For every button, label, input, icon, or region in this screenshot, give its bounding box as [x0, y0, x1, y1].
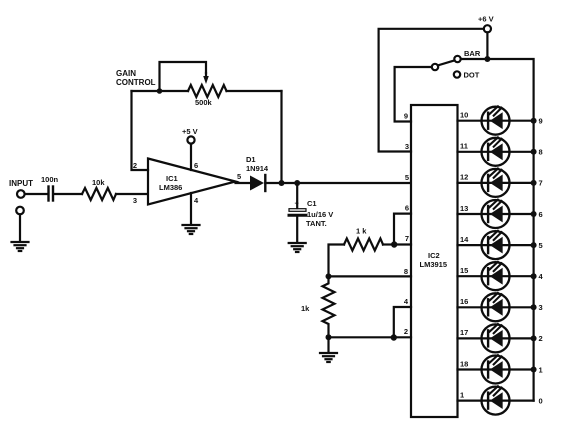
- wiper arrow: [203, 76, 209, 84]
- IC2 LM3915: [411, 105, 458, 417]
- svg-text:LM3915: LM3915: [420, 260, 448, 269]
- wire pin 6 to pin 7: [394, 214, 411, 245]
- svg-text:+6 V: +6 V: [478, 15, 494, 24]
- node +6V junction: [484, 56, 490, 62]
- svg-text:IC1: IC1: [166, 174, 178, 183]
- GAIN CONTROL label: [116, 69, 156, 87]
- node rail row 2: [531, 335, 537, 341]
- wire 1k left to pin8 node: [329, 245, 345, 277]
- svg-text:9: 9: [404, 112, 408, 121]
- svg-text:12: 12: [460, 173, 468, 182]
- svg-text:LM386: LM386: [159, 183, 182, 192]
- node pin7 junction: [391, 241, 397, 247]
- svg-text:7: 7: [405, 234, 409, 243]
- wire LED to rail: [509, 213, 533, 215]
- wire pin 18 to LED: [458, 368, 482, 370]
- svg-text:3: 3: [405, 142, 409, 151]
- wire pin 16 to LED: [458, 306, 482, 308]
- node rail row 4: [531, 273, 537, 279]
- svg-text:4: 4: [404, 297, 409, 306]
- wire node to LED rail top: [487, 59, 533, 401]
- svg-text:2: 2: [539, 334, 543, 343]
- svg-text:2: 2: [404, 327, 408, 336]
- svg-text:C1: C1: [307, 199, 317, 208]
- op-amp IC1 LM386: [133, 159, 241, 206]
- svg-text:1: 1: [460, 390, 464, 399]
- wire input to 100n: [25, 193, 47, 195]
- svg-text:6: 6: [539, 210, 543, 219]
- wire LED to rail: [509, 400, 533, 402]
- wire pin 12 to LED: [458, 182, 482, 184]
- wire LED to rail: [509, 337, 533, 339]
- wire LED to rail: [509, 120, 533, 122]
- svg-text:INPUT: INPUT: [9, 179, 33, 188]
- node C1 junction: [294, 180, 300, 186]
- svg-text:10: 10: [460, 111, 468, 120]
- wire pin 7: [394, 243, 411, 245]
- wire pin5 to diode: [236, 182, 251, 184]
- wire LED to rail: [509, 275, 533, 277]
- svg-text:10k: 10k: [92, 178, 105, 187]
- svg-text:9: 9: [539, 117, 543, 126]
- svg-text:8: 8: [539, 148, 543, 157]
- capacitor C1 1u/16V TANT: [289, 183, 333, 242]
- wire feedback top left segment: [132, 90, 189, 92]
- LED D6: [482, 200, 510, 228]
- wire pin 15 to LED: [458, 275, 482, 277]
- capacitor 100n: [41, 175, 59, 201]
- svg-text:5: 5: [405, 173, 409, 182]
- svg-text:14: 14: [460, 235, 469, 244]
- node rail row 8: [531, 149, 537, 155]
- wire BAR to +6V node: [461, 58, 488, 60]
- svg-text:1u/16 V: 1u/16 V: [307, 210, 333, 219]
- svg-text:6: 6: [405, 204, 409, 213]
- node rail row 5: [531, 242, 537, 248]
- switch blade: [438, 60, 455, 65]
- wire pin 9: [395, 67, 432, 122]
- resistor 10k: [82, 178, 116, 200]
- svg-text:1k: 1k: [301, 304, 310, 313]
- wire pin 17 to LED: [458, 337, 482, 339]
- svg-text:16: 16: [460, 297, 468, 306]
- wire pin2 feedback (left vertical): [132, 91, 149, 170]
- node rail row 1: [531, 367, 537, 373]
- switch DOT contact: [454, 71, 460, 77]
- svg-text:GAIN: GAIN: [116, 69, 136, 78]
- LED D8: [482, 137, 510, 165]
- potentiometer 500k: [188, 85, 227, 107]
- svg-text:DOT: DOT: [464, 71, 480, 80]
- svg-text:CONTROL: CONTROL: [116, 78, 156, 87]
- svg-text:500k: 500k: [195, 98, 213, 107]
- input jack INPUT: [9, 179, 33, 214]
- node rail row 6: [531, 211, 537, 217]
- svg-text:D1: D1: [246, 155, 256, 164]
- resistor 1k (vertical): [301, 276, 335, 337]
- svg-text:+5 V: +5 V: [182, 127, 198, 136]
- wire lower jack to ground: [19, 214, 21, 241]
- wire LED to rail: [509, 182, 533, 184]
- diode D1 1N914: [246, 155, 269, 191]
- svg-text:BAR: BAR: [464, 49, 481, 58]
- wire pin 14 to LED: [458, 244, 482, 246]
- wire pin4 to ground: [190, 193, 192, 224]
- wire pot to right vertical: [227, 90, 282, 92]
- switch S1 pole: [432, 64, 438, 70]
- svg-text:8: 8: [404, 267, 408, 276]
- LED D5: [482, 231, 510, 259]
- wire 10k to pin3: [116, 193, 148, 195]
- wire +6V to pin3 rail: [379, 29, 484, 152]
- LED D3: [482, 293, 510, 321]
- wire bottom to pin 2: [329, 336, 412, 338]
- resistor 1k (horizontal): [344, 227, 394, 251]
- node rail row 7: [531, 180, 537, 186]
- wire pin 8: [329, 275, 412, 277]
- wire right vertical feedback: [280, 91, 282, 183]
- +6V supply: [478, 15, 494, 60]
- wire 1k to ground: [327, 337, 329, 352]
- wire LED to rail: [509, 368, 533, 370]
- node pin4 branch junction: [391, 334, 397, 340]
- LED D4: [482, 262, 510, 290]
- svg-text:3: 3: [133, 196, 137, 205]
- svg-text:17: 17: [460, 328, 468, 337]
- ground (input): [12, 242, 29, 251]
- svg-text:6: 6: [194, 161, 198, 170]
- wire diode to IC2 pin5: [265, 182, 411, 184]
- node ground junction: [326, 334, 332, 340]
- ground (C1): [289, 243, 306, 252]
- wire pin 10 to LED: [458, 120, 482, 122]
- svg-text:4: 4: [539, 272, 544, 281]
- svg-text:IC2: IC2: [428, 251, 440, 260]
- svg-text:1N914: 1N914: [246, 164, 269, 173]
- svg-text:7: 7: [539, 179, 543, 188]
- wire pin 11 to LED: [458, 151, 482, 153]
- svg-text:18: 18: [460, 359, 468, 368]
- ground (IC1 pin 4): [183, 225, 200, 234]
- svg-text:100n: 100n: [41, 175, 59, 184]
- wire LED to rail: [509, 306, 533, 308]
- svg-text:3: 3: [539, 303, 543, 312]
- node rail row 3: [531, 304, 537, 310]
- svg-text:1 k: 1 k: [356, 227, 367, 236]
- wire 100n to 10k: [55, 193, 82, 195]
- svg-text:4: 4: [194, 196, 199, 205]
- +5V supply: [182, 127, 198, 170]
- switch BAR contact: [454, 56, 460, 62]
- LED D0: [482, 386, 510, 414]
- LED D2: [482, 324, 510, 352]
- svg-text:15: 15: [460, 266, 468, 275]
- wire LED to rail: [509, 151, 533, 153]
- wire LED to rail: [509, 244, 533, 246]
- node rail row 9: [531, 118, 537, 124]
- svg-text:13: 13: [460, 204, 468, 213]
- wire pot wiper loop: [160, 62, 207, 91]
- svg-text:11: 11: [460, 142, 468, 151]
- ground (1k): [320, 353, 337, 362]
- svg-text:2: 2: [133, 161, 137, 170]
- wire pin 1 to LED: [458, 400, 482, 402]
- LED D9: [482, 106, 510, 134]
- svg-text:+: +: [295, 199, 300, 208]
- node pin8 junction: [326, 273, 332, 279]
- wire pin 13 to LED: [458, 213, 482, 215]
- svg-text:5: 5: [237, 172, 241, 181]
- svg-text:5: 5: [539, 241, 543, 250]
- svg-text:0: 0: [539, 396, 543, 405]
- LED D7: [482, 169, 510, 197]
- LED D1: [482, 355, 510, 383]
- node feedback junction: [279, 180, 285, 186]
- svg-text:TANT.: TANT.: [306, 219, 327, 228]
- node gain junction: [157, 88, 163, 94]
- svg-text:1: 1: [539, 365, 543, 374]
- wire pin 4 branch: [394, 307, 411, 338]
